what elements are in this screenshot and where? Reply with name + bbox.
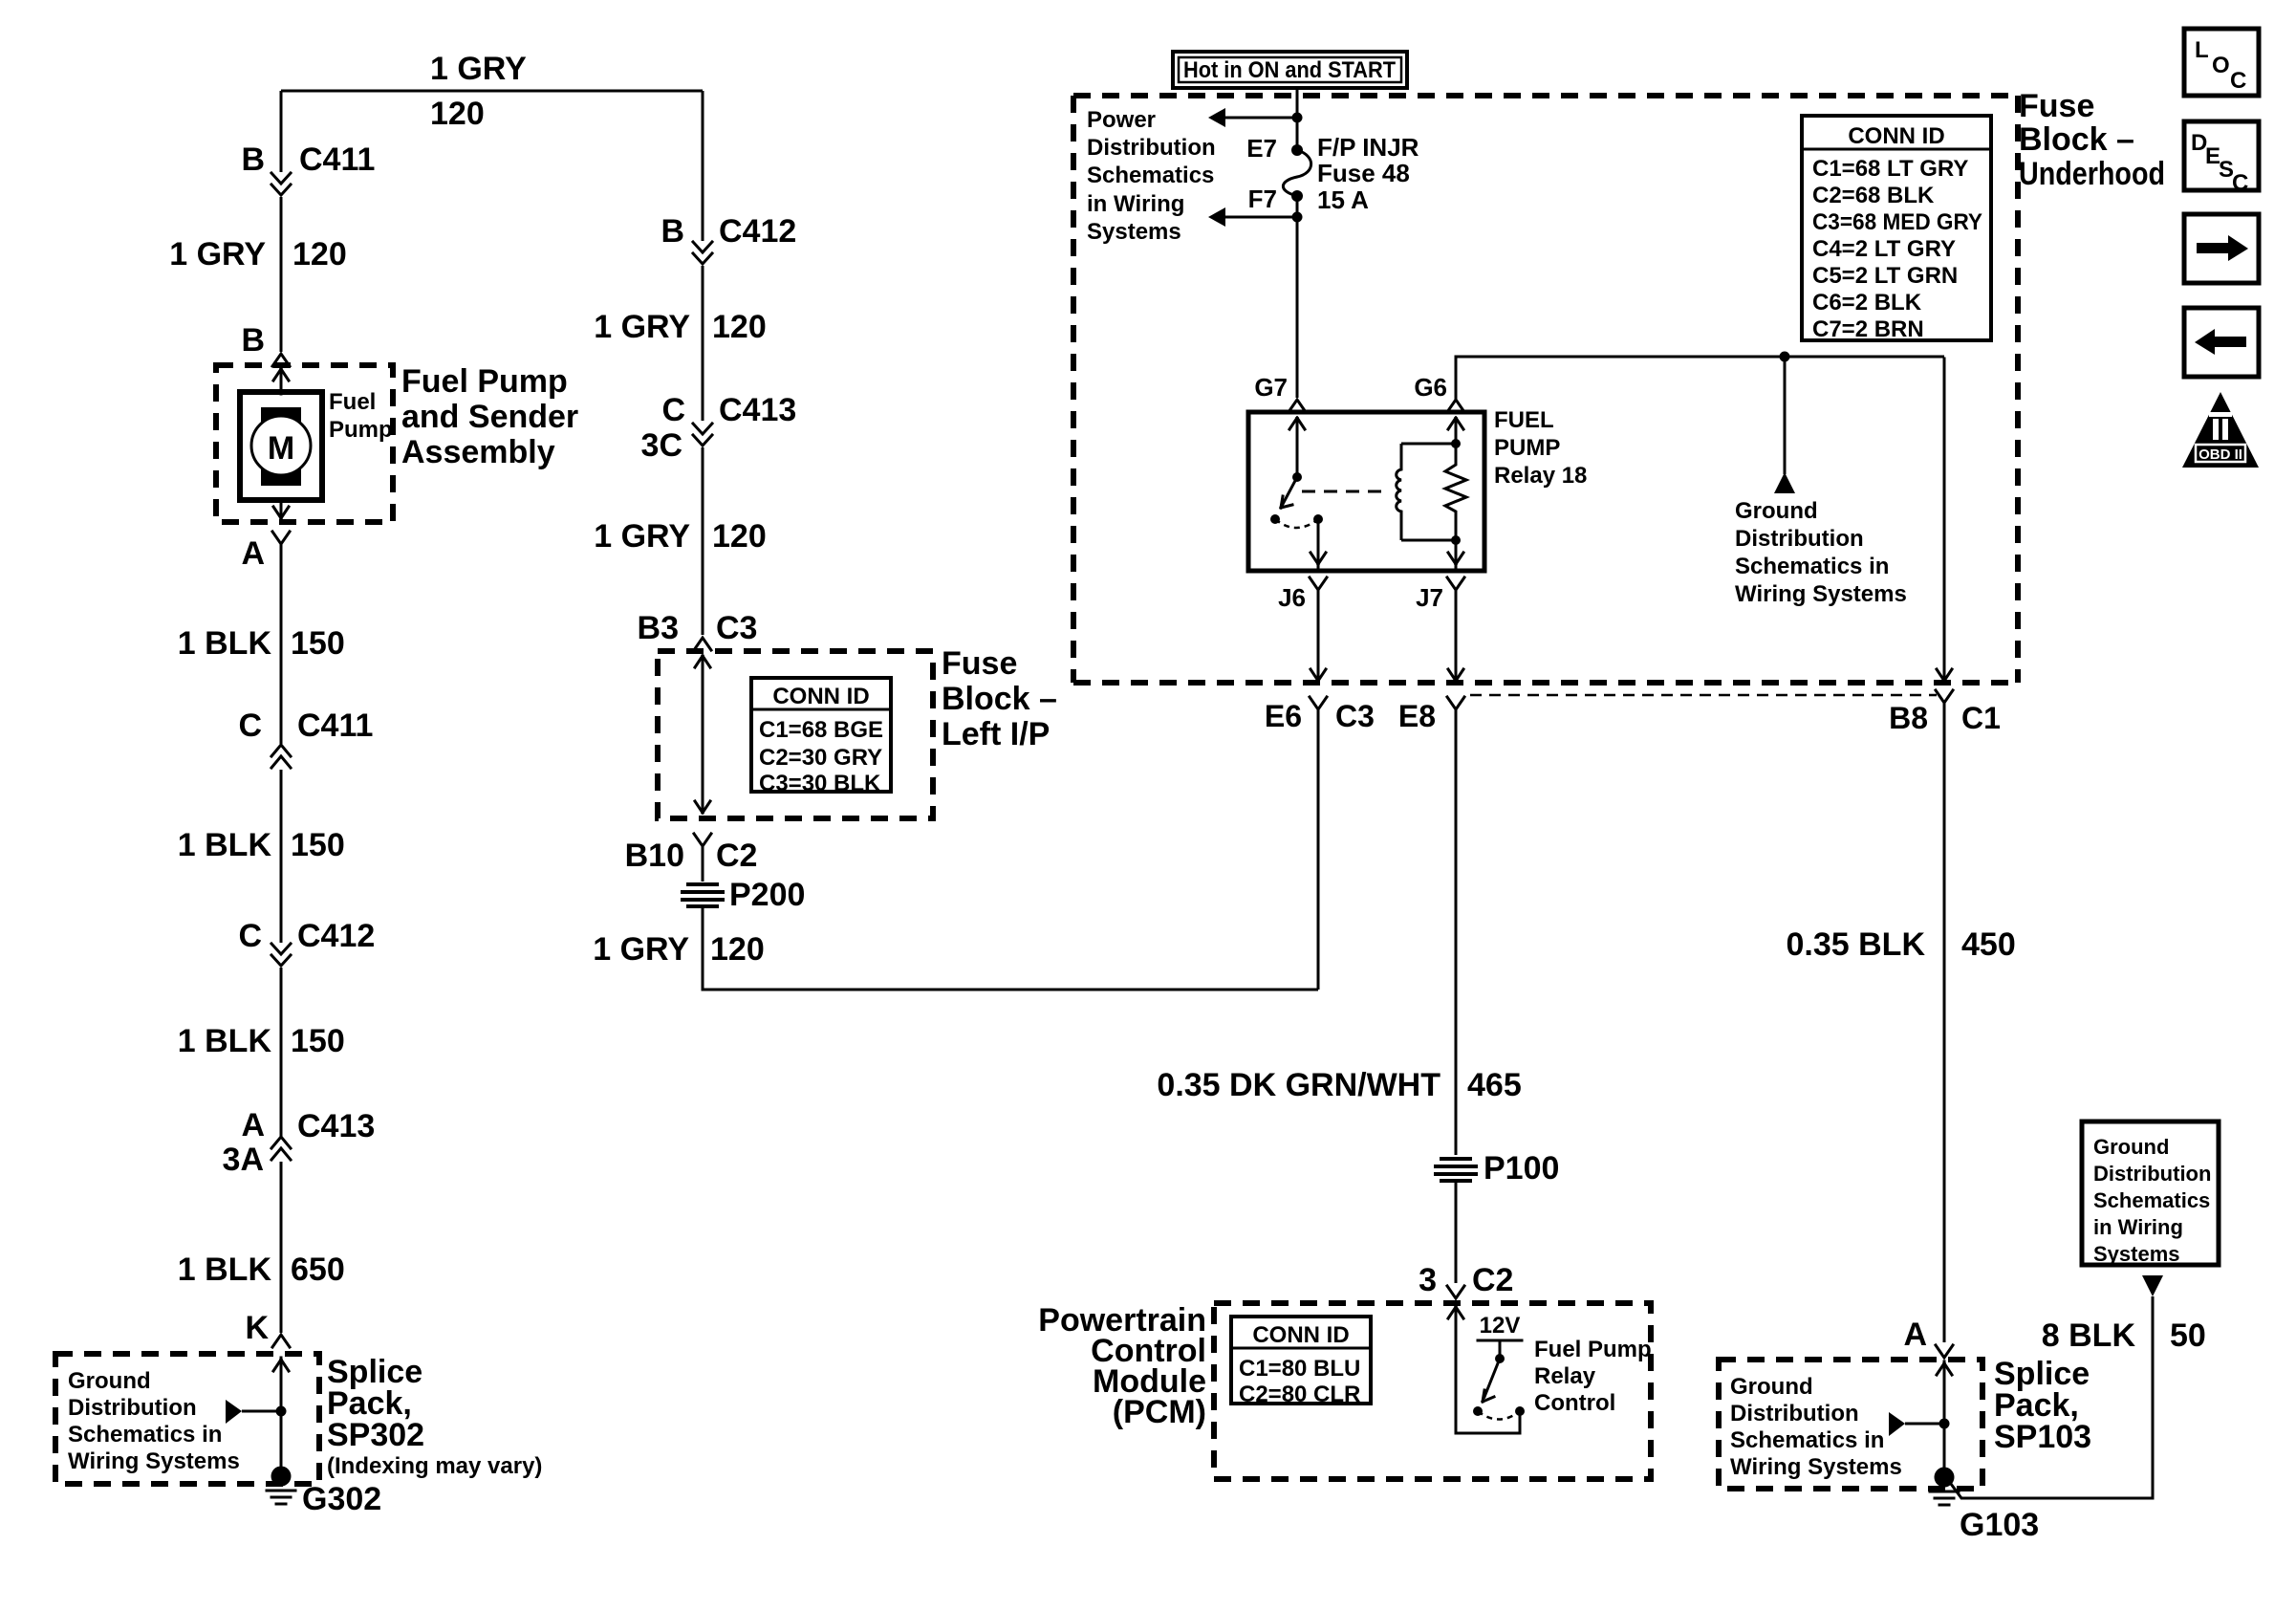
svg-text:B: B (241, 142, 265, 178)
svg-text:E7: E7 (1246, 134, 1277, 163)
svg-text:150: 150 (291, 827, 345, 863)
svg-text:F7: F7 (1248, 185, 1277, 213)
svg-text:150: 150 (291, 625, 345, 662)
svg-text:120: 120 (710, 931, 765, 968)
svg-text:C2=68 BLK: C2=68 BLK (1812, 183, 1935, 208)
svg-text:Block –: Block – (2019, 121, 2134, 158)
svg-text:Ground: Ground (1730, 1374, 1813, 1400)
label: Ground Distribution Schematics in Wiring Systems (SP302) (68, 1368, 240, 1474)
icon: next arrow button (2184, 214, 2259, 283)
svg-text:Systems: Systems (1087, 219, 1181, 245)
svg-text:C: C (238, 708, 262, 744)
wire: ground distribution stub from relay feed (1774, 357, 1795, 493)
wire: pump lead with down arrow (273, 500, 289, 518)
svg-text:Fuel Pump: Fuel Pump (1534, 1337, 1652, 1362)
wire: pump lead with up arrow (273, 369, 289, 394)
svg-text:Fuse: Fuse (2019, 88, 2094, 124)
svg-text:Ground: Ground (2093, 1135, 2169, 1159)
svg-text:P100: P100 (1484, 1150, 1559, 1186)
splice pack SP103 dashed box (1719, 1360, 1982, 1489)
wire: J6 down to fuse block edge (1310, 590, 1326, 681)
connector C412 pin B (in-line, arrows down) (661, 213, 796, 264)
fuse block left I/P dashed box (658, 651, 933, 818)
fuel pump and sender assembly dashed box (216, 365, 393, 522)
wire: fuse output down to relay pin G7 (1296, 196, 1299, 398)
label: Ground Distribution Schematics in Wiring Systems (stub) (1735, 498, 1907, 607)
fuse block underhood dashed box (1073, 96, 2018, 683)
label: FUEL PUMP Relay 18 (1494, 407, 1587, 489)
svg-text:C3=68 MED GRY: C3=68 MED GRY (1812, 209, 1982, 235)
relay coil (1397, 444, 1456, 540)
svg-text:650: 650 (291, 1252, 345, 1288)
svg-text:C1=80 BLU: C1=80 BLU (1239, 1356, 1360, 1382)
svg-text:C1=68 BGE: C1=68 BGE (759, 717, 883, 743)
fuse 48 F/P INJR 15 A (1246, 133, 1419, 214)
label: Splice Pack SP302 (327, 1354, 542, 1479)
svg-text:A: A (241, 535, 265, 572)
fuel pump motor M (240, 389, 393, 500)
wire: feed into fuse block underhood (1296, 88, 1299, 150)
svg-text:OBD II: OBD II (2199, 446, 2242, 463)
label: Ground Distribution Schematics in Wiring Systems (SP103) (1730, 1374, 1902, 1480)
svg-text:CONN ID: CONN ID (1252, 1322, 1349, 1348)
svg-text:Schematics in: Schematics in (1730, 1427, 1884, 1453)
svg-text:Schematics: Schematics (1087, 163, 1214, 188)
svg-text:Block –: Block – (942, 681, 1057, 717)
CONN ID table (fuse block underhood) (1802, 116, 1991, 342)
svg-text:SP302: SP302 (327, 1417, 424, 1453)
wire: 0.35 BLK 450 down to SP103 (1787, 703, 2016, 1342)
connector C412 pin C (in-line, arrows down) (238, 918, 375, 966)
svg-text:Control: Control (1534, 1390, 1615, 1416)
svg-text:1 GRY: 1 GRY (169, 236, 266, 272)
splice pack SP302 dashed box (55, 1354, 319, 1484)
svg-text:G103: G103 (1960, 1507, 2039, 1543)
svg-text:C411: C411 (297, 708, 373, 744)
svg-text:Distribution: Distribution (2093, 1162, 2211, 1186)
wire: J7 down to fuse block edge (1448, 590, 1463, 681)
connector C413 pin C (in-line, arrows down) (641, 392, 797, 464)
splice stub arrow (other circuits) (226, 1400, 281, 1424)
svg-text:C7=2 BRN: C7=2 BRN (1812, 316, 1924, 342)
svg-text:J7: J7 (1416, 583, 1443, 612)
svg-text:B10: B10 (625, 838, 684, 874)
wire: arrow to power distribution (upper) (1208, 108, 1303, 127)
svg-text:C2=80 CLR: C2=80 CLR (1239, 1382, 1360, 1407)
wire: P100 to PCM pin 3 (1455, 1182, 1458, 1283)
svg-text:450: 450 (1961, 926, 2016, 963)
svg-text:C3: C3 (1335, 699, 1375, 733)
grommet P100 (1434, 1150, 1559, 1186)
label: Fuse Block - Left I/P (942, 645, 1057, 752)
svg-text:B: B (661, 213, 684, 250)
svg-text:B: B (241, 322, 265, 359)
relay coil feed pin (from G6) (1448, 418, 1463, 444)
svg-text:0.35 DK GRN/WHT: 0.35 DK GRN/WHT (1157, 1067, 1440, 1103)
svg-text:1 BLK: 1 BLK (178, 827, 272, 863)
svg-text:C413: C413 (297, 1108, 375, 1144)
svg-text:Distribution: Distribution (1087, 135, 1216, 161)
relay switch contacts (1270, 514, 1323, 528)
svg-text:Assembly: Assembly (401, 434, 555, 470)
wire: 0.35 DK GRN/WHT 465 down to P100 (1157, 709, 1521, 1155)
svg-text:1 BLK: 1 BLK (178, 1023, 272, 1059)
wire: 1 BLK 150 segment (178, 968, 345, 1137)
icon: LOC button (2184, 29, 2259, 96)
svg-text:Systems: Systems (2093, 1242, 2180, 1266)
svg-text:Relay 18: Relay 18 (1494, 463, 1587, 489)
svg-text:C1=68 LT GRY: C1=68 LT GRY (1812, 156, 1968, 182)
connector pin K at splice pack SP302 (245, 1310, 290, 1347)
fuel pump relay control driver (12V switch) (1473, 1313, 1522, 1420)
connector C411 pin B (in-line, arrows down) (241, 142, 375, 195)
svg-text:1 GRY: 1 GRY (594, 309, 690, 345)
node: SP302 splice junction (276, 1406, 287, 1417)
svg-text:Fuel: Fuel (329, 389, 376, 415)
svg-text:Wiring Systems: Wiring Systems (1735, 581, 1907, 607)
svg-text:(PCM): (PCM) (1113, 1394, 1206, 1430)
svg-text:1 GRY: 1 GRY (594, 518, 690, 555)
svg-text:B3: B3 (638, 610, 679, 646)
wire: 1 GRY 120 segment (594, 266, 767, 421)
svg-text:Pump: Pump (329, 417, 393, 443)
svg-text:CONN ID: CONN ID (1848, 123, 1944, 149)
svg-text:C3: C3 (716, 610, 757, 646)
svg-text:E8: E8 (1398, 699, 1436, 733)
svg-text:8 BLK: 8 BLK (2042, 1317, 2136, 1354)
wire: relay G6 up and right to B8/C1 and ground distribution (1456, 357, 1944, 400)
node: driver output contact (1515, 1406, 1525, 1416)
icon: OBD II symbol (2182, 392, 2259, 468)
svg-text:Relay: Relay (1534, 1363, 1596, 1389)
connector C413 pin A (in-line, arrows up) (223, 1107, 376, 1178)
svg-text:C413: C413 (719, 392, 796, 428)
svg-text:1 BLK: 1 BLK (178, 1252, 272, 1288)
icon: previous arrow button (2184, 308, 2259, 377)
CONN ID table (fuse block left I/P) (751, 678, 891, 796)
relay switch movable arm (1281, 477, 1297, 508)
svg-text:C2: C2 (716, 838, 757, 874)
svg-text:120: 120 (712, 518, 767, 555)
svg-text:C412: C412 (719, 213, 796, 250)
svg-text:120: 120 (430, 96, 485, 132)
ground G103 (1930, 1468, 2039, 1544)
svg-text:C6=2 BLK: C6=2 BLK (1812, 290, 1922, 316)
connector C2 pin B10 (625, 834, 758, 874)
svg-text:C: C (2230, 68, 2246, 94)
svg-text:A: A (241, 1107, 265, 1143)
svg-text:Wiring Systems: Wiring Systems (68, 1448, 240, 1474)
connector C3 pin E6 (1265, 697, 1375, 733)
label: Fuel Pump and Sender Assembly (401, 363, 578, 470)
connector C2 pin 3 at PCM (1419, 1262, 1513, 1298)
label: Powertrain Control Module (PCM) (1038, 1302, 1206, 1430)
wire: B8 feed down inside fuse block (1937, 359, 1952, 681)
svg-text:Distribution: Distribution (68, 1395, 197, 1421)
svg-text:1 GRY: 1 GRY (430, 51, 527, 87)
svg-text:and Sender: and Sender (401, 399, 578, 435)
svg-text:Ground: Ground (1735, 498, 1818, 524)
svg-text:C1: C1 (1961, 701, 2001, 735)
svg-text:Underhood: Underhood (2019, 156, 2165, 192)
node: SP103 splice junction (1939, 1419, 1950, 1429)
svg-text:C2: C2 (1472, 1262, 1513, 1298)
svg-text:Schematics: Schematics (2093, 1188, 2210, 1212)
relay pin J6 (1278, 577, 1327, 612)
wire: arrow to power distribution (lower) (1208, 207, 1303, 227)
svg-text:Fuel Pump: Fuel Pump (401, 363, 568, 400)
svg-text:120: 120 (292, 236, 347, 272)
svg-text:C: C (661, 392, 685, 428)
wire: 1 BLK 650 segment (178, 1162, 345, 1333)
svg-text:E6: E6 (1265, 699, 1302, 733)
wire: 1 GRY 120 from P200 down and right to E6 (593, 906, 1318, 990)
wire: E6 down to corner (1317, 709, 1320, 990)
svg-text:in Wiring: in Wiring (1087, 191, 1184, 217)
node: relay coil bottom junction (1451, 535, 1461, 545)
svg-text:C412: C412 (297, 918, 375, 954)
powertrain control module dashed box (1214, 1303, 1651, 1479)
relay pin G7 (1254, 373, 1306, 412)
wire: relay switched output to J6 (1310, 519, 1326, 571)
svg-text:G6: G6 (1414, 373, 1447, 402)
svg-text:12V: 12V (1480, 1313, 1521, 1339)
label: Splice Pack SP103 (1994, 1356, 2091, 1455)
svg-text:465: 465 (1467, 1067, 1522, 1103)
wire: left column vertical (fuel pump feed) (280, 91, 283, 172)
svg-text:Distribution: Distribution (1730, 1401, 1859, 1426)
CONN ID table (PCM) (1231, 1317, 1371, 1407)
svg-text:3A: 3A (223, 1142, 264, 1178)
label: Fuel Pump Relay Control (1534, 1337, 1652, 1416)
grommet P200 (681, 877, 805, 913)
svg-text:Fuse: Fuse (942, 645, 1017, 682)
svg-text:Ground: Ground (68, 1368, 151, 1394)
wire: 1 GRY 120 segment (594, 447, 767, 635)
svg-text:Power: Power (1087, 107, 1156, 133)
connector pin A of fuel pump assembly (241, 532, 290, 572)
svg-text:G302: G302 (302, 1481, 381, 1517)
wire: 8 BLK 50 from ground distribution to G103 (1951, 1275, 2206, 1498)
svg-text:C2=30 GRY: C2=30 GRY (759, 745, 882, 771)
svg-text:3: 3 (1419, 1262, 1437, 1298)
connector C1 pin B8 (1889, 690, 2001, 735)
relay coil suppression resistor (1445, 444, 1466, 540)
icon: DESC button (2184, 121, 2259, 196)
svg-text:P200: P200 (729, 877, 805, 913)
svg-text:C3=30 BLK: C3=30 BLK (759, 771, 881, 796)
svg-text:15 A: 15 A (1317, 185, 1369, 214)
svg-text:Wiring Systems: Wiring Systems (1730, 1454, 1902, 1480)
wire: to grommet P200 (702, 846, 704, 882)
fuel pump relay 18 box (1248, 412, 1484, 571)
node: relay coil top junction (1451, 439, 1461, 448)
connector C1 face line (thin dashed) (1470, 694, 1937, 697)
svg-text:C: C (238, 918, 262, 954)
svg-text:C4=2 LT GRY: C4=2 LT GRY (1812, 236, 1956, 262)
svg-text:PUMP: PUMP (1494, 435, 1560, 461)
svg-text:3C: 3C (641, 427, 682, 464)
wire: inside SP302 with up arrow (273, 1358, 289, 1469)
wire: inside fuse block left I/P with arrows both ends (695, 656, 710, 813)
svg-text:Distribution: Distribution (1735, 526, 1864, 552)
wire: 1 GRY 120 circuit, top horizontal run (281, 51, 703, 132)
connector pin A at splice pack SP103 (1903, 1317, 1953, 1358)
svg-text:CONN ID: CONN ID (772, 684, 869, 709)
relay pin J7 (1416, 577, 1464, 612)
splice stub arrow (other circuits, SP103) (1889, 1412, 1944, 1436)
label: Fuse Block - Underhood (2019, 88, 2165, 192)
svg-text:1 GRY: 1 GRY (593, 931, 689, 968)
svg-text:SP103: SP103 (1994, 1419, 2091, 1455)
svg-text:F/P INJR: F/P INJR (1317, 133, 1419, 162)
svg-text:150: 150 (291, 1023, 345, 1059)
wire: 1 GRY 120 to fuel pump (169, 197, 347, 352)
svg-text:Hot in ON and START: Hot in ON and START (1183, 57, 1396, 83)
relay pin G6 (1414, 373, 1464, 412)
label: Power Distribution Schematics in Wiring Systems (1087, 107, 1216, 245)
relay switch common pin (from G7) (1289, 418, 1305, 482)
svg-text:1 BLK: 1 BLK (178, 625, 272, 662)
svg-text:50: 50 (2170, 1317, 2206, 1354)
svg-text:C: C (2232, 170, 2248, 196)
svg-text:(Indexing may vary): (Indexing may vary) (327, 1453, 542, 1479)
svg-text:C5=2 LT GRN: C5=2 LT GRN (1812, 263, 1958, 289)
svg-text:O: O (2212, 53, 2230, 78)
ground G302 (267, 1467, 381, 1518)
svg-text:FUEL: FUEL (1494, 407, 1554, 433)
svg-text:C411: C411 (299, 142, 375, 178)
Hot in ON and START feed box (1173, 52, 1407, 88)
svg-text:Schematics in: Schematics in (1735, 554, 1889, 579)
svg-text:Fuse 48: Fuse 48 (1317, 159, 1410, 187)
svg-text:J6: J6 (1278, 583, 1306, 612)
wire: inside SP103 with up arrow (1937, 1361, 1952, 1470)
wire: 1 BLK 150 segment (178, 770, 345, 943)
ground distribution schematics reference box (right) (2082, 1121, 2219, 1266)
svg-text:120: 120 (712, 309, 767, 345)
connector C411 pin C (in-line, arrows up) (238, 708, 373, 768)
wire: middle column 1 GRY from top run (702, 91, 704, 241)
relay coil ground pin (to J7) (1448, 540, 1463, 571)
connector pin B of fuel pump assembly (241, 322, 290, 366)
svg-text:L: L (2195, 37, 2209, 63)
wire: 1 BLK 150 segment (178, 544, 345, 744)
node: junction to ground distribution (1780, 352, 1790, 362)
svg-text:A: A (1903, 1317, 1927, 1353)
svg-text:0.35 BLK: 0.35 BLK (1787, 926, 1926, 963)
wire: inside PCM to driver (1448, 1307, 1520, 1433)
svg-text:B8: B8 (1889, 701, 1928, 735)
svg-text:in Wiring: in Wiring (2093, 1215, 2183, 1239)
svg-text:G7: G7 (1254, 373, 1288, 402)
svg-text:Left I/P: Left I/P (942, 716, 1050, 752)
relay control dashed link (1302, 490, 1384, 493)
connector C1 pin E8 (1398, 697, 1464, 733)
svg-text:Schematics in: Schematics in (68, 1422, 222, 1448)
svg-text:K: K (245, 1310, 269, 1346)
connector C3 pin B3 at fuse block left I/P (638, 610, 758, 650)
svg-text:M: M (268, 430, 294, 467)
